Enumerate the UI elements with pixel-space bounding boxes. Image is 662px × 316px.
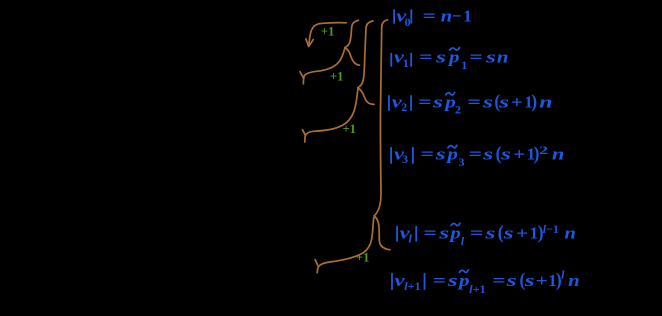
svg-text:1: 1	[461, 58, 467, 72]
svg-text:=: =	[423, 6, 436, 25]
svg-text:+: +	[513, 144, 525, 163]
equation row 3: |v3| = s p~3 = s (s + 1)^2 n	[390, 143, 564, 169]
svg-text:n: n	[539, 92, 552, 111]
svg-text:=: =	[492, 271, 505, 290]
svg-text:=: =	[468, 92, 481, 111]
arrow A2 (from brace B1 cusp, +1 step to level 2)	[300, 49, 345, 84]
svg-text:s: s	[481, 92, 493, 111]
svg-text:=: =	[421, 144, 434, 163]
svg-text:2: 2	[455, 103, 461, 117]
svg-text:0: 0	[405, 15, 411, 29]
svg-text:+1: +1	[343, 122, 356, 136]
svg-text:=: =	[419, 48, 432, 67]
equation row 0: |v0| = n - 1	[393, 6, 472, 29]
equation row 1: |v1| = s p~1 = s n	[390, 48, 508, 73]
svg-text:s: s	[484, 223, 496, 242]
svg-text:=: =	[418, 92, 431, 111]
brace B1 (groups level 0, right of arrow 1)	[345, 20, 360, 65]
arrow A4 (from brace B3 cusp, +1 step to level l+1)	[315, 218, 374, 273]
svg-text:2: 2	[401, 100, 407, 114]
svg-text:s: s	[505, 271, 517, 290]
svg-text:n: n	[497, 48, 509, 67]
svg-text:s: s	[502, 223, 514, 242]
brace B2 (groups levels 0-1)	[358, 21, 374, 104]
svg-text:p: p	[443, 92, 456, 111]
svg-text:+: +	[511, 92, 523, 111]
svg-text:p: p	[457, 271, 470, 290]
svg-text:=: =	[433, 271, 446, 290]
svg-text:s: s	[446, 271, 458, 290]
equation row l+1: |v(l+1)| = s p~(l+1) = s (s + 1)^l n	[391, 267, 580, 296]
svg-text:n: n	[564, 223, 576, 242]
svg-text:+1: +1	[321, 25, 334, 39]
svg-text:1: 1	[463, 6, 472, 25]
svg-text:2: 2	[539, 143, 548, 157]
svg-text:=: =	[470, 223, 483, 242]
svg-text:s: s	[499, 144, 511, 163]
svg-text:+1: +1	[408, 279, 421, 293]
equation row l: |vl| = s p~l = s (s + 1)^(l-1) n	[396, 222, 576, 248]
svg-text:): )	[531, 91, 537, 112]
svg-text:=: =	[469, 144, 482, 163]
svg-text:s: s	[438, 223, 450, 242]
svg-text:s: s	[434, 144, 446, 163]
svg-text:s: s	[498, 92, 510, 111]
svg-text:s: s	[484, 48, 496, 67]
svg-text:1: 1	[403, 56, 409, 70]
svg-text:p: p	[448, 223, 461, 242]
arrow A1 (top curved arrow, +1 step to level 1)	[306, 23, 346, 47]
svg-text:−: −	[452, 6, 462, 25]
svg-text:s: s	[482, 144, 494, 163]
svg-text:+: +	[516, 223, 528, 242]
svg-text:s: s	[523, 271, 535, 290]
brace B3 (groups levels 0 through l)	[374, 20, 390, 250]
svg-text:n: n	[441, 6, 453, 25]
svg-text:+: +	[536, 271, 548, 290]
svg-text:+1: +1	[356, 251, 369, 265]
svg-text:=: =	[423, 223, 436, 242]
svg-text:=: =	[469, 48, 482, 67]
arrow A3 (from brace B2 cusp, +1 step to level 3)	[303, 89, 358, 142]
svg-text:+1: +1	[473, 282, 486, 296]
svg-text:s: s	[431, 92, 443, 111]
svg-text:n: n	[552, 144, 565, 163]
svg-text:+1: +1	[330, 69, 343, 83]
svg-text:n: n	[568, 271, 580, 290]
svg-text:3: 3	[459, 155, 465, 169]
equation row 2: |v2| = s p~2 = s (s + 1) n	[388, 91, 553, 116]
svg-text:s: s	[434, 48, 446, 67]
svg-text:−1: −1	[546, 222, 559, 236]
svg-text:3: 3	[402, 152, 408, 166]
